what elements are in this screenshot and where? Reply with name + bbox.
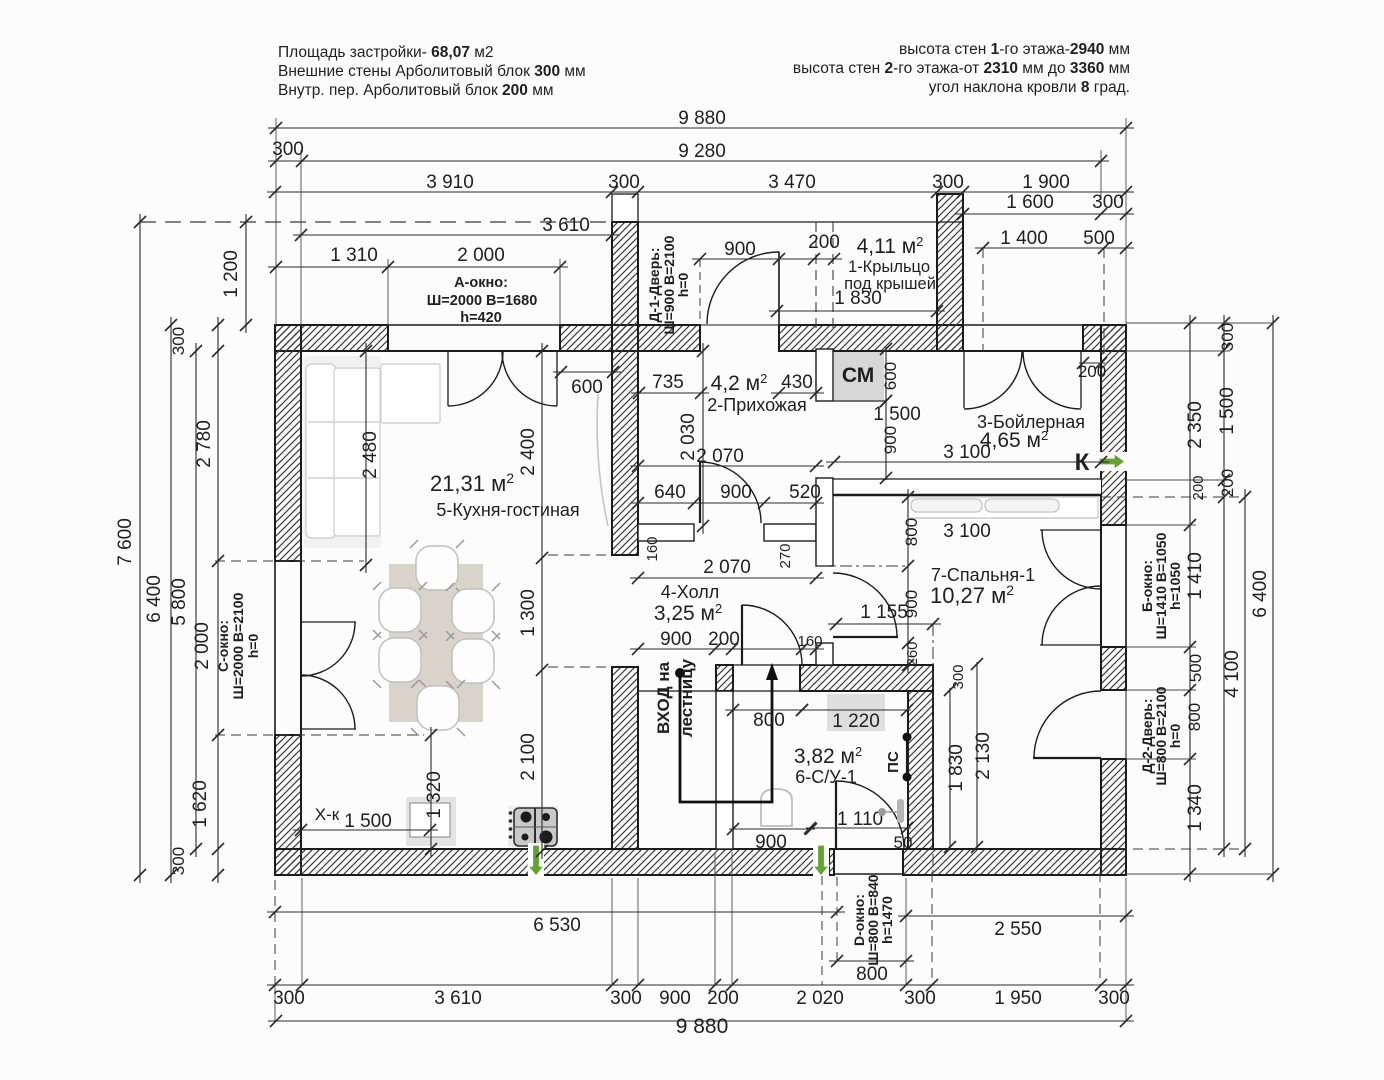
- top wall porch segment: [779, 325, 963, 351]
- svg-text:800: 800: [902, 518, 921, 546]
- bedroom ext dash-dot lines: [817, 565, 908, 567]
- svg-text:800: 800: [856, 964, 888, 985]
- svg-text:1 300: 1 300: [518, 589, 539, 637]
- dim row 3910/300/3470/300/1900: [267, 191, 1134, 193]
- svg-text:300: 300: [169, 327, 188, 355]
- svg-text:2 780: 2 780: [194, 420, 215, 468]
- kitchen opening ext dashes: [548, 554, 612, 556]
- door D-1 entrance leaf and swing: [778, 252, 780, 324]
- porch dashed wall projection: [815, 222, 817, 330]
- dim 900 CM: [885, 399, 887, 480]
- svg-text:Д-1-Дверь:: Д-1-Дверь:: [646, 247, 662, 322]
- svg-text:300: 300: [950, 664, 967, 689]
- svg-text:2 000: 2 000: [457, 245, 505, 266]
- svg-text:500: 500: [1083, 228, 1115, 249]
- svg-text:2 350: 2 350: [1185, 401, 1206, 449]
- svg-text:2 070: 2 070: [703, 557, 751, 578]
- svg-text:1 320: 1 320: [424, 771, 445, 819]
- bathroom east wall W4: [908, 691, 933, 849]
- right margin extension lines: [1126, 322, 1272, 324]
- svg-text:6-С/У-1: 6-С/У-1: [795, 767, 856, 787]
- svg-text:735: 735: [652, 372, 684, 393]
- dim 7600 left: [139, 214, 141, 883]
- svg-text:Х-к: Х-к: [315, 805, 340, 824]
- dim 2070 hall upper: [630, 465, 824, 467]
- svg-text:300: 300: [610, 988, 642, 1009]
- dim 1200 porch height: [245, 214, 247, 333]
- svg-text:h=0: h=0: [675, 273, 691, 298]
- svg-text:900: 900: [720, 482, 752, 503]
- bedroom door leaf and swing: [833, 636, 898, 638]
- hall partition W5 west part: [638, 524, 694, 541]
- window C sill lines: [274, 561, 276, 735]
- svg-text:Площадь застройки- 68,07 м2: Площадь застройки- 68,07 м2: [278, 44, 494, 61]
- svg-text:300: 300: [1092, 192, 1124, 213]
- dim 1600/300: [955, 213, 1134, 215]
- dim 800/900/260 bedroom door: [907, 489, 909, 673]
- boiler/bedroom partition W7: [833, 479, 1101, 496]
- svg-text:6 400: 6 400: [1250, 570, 1271, 618]
- dim 9880 top: [268, 127, 1134, 129]
- door D-2 leaf and swing: [1033, 757, 1101, 759]
- dim 900 bath bottom: [729, 828, 815, 830]
- dashed window ext right top: [982, 248, 984, 351]
- svg-text:160: 160: [797, 633, 822, 650]
- dim 200 boiler window: [1079, 362, 1105, 364]
- dashed roof line left: [140, 221, 612, 223]
- door hall-corridor leaf and swing: [699, 461, 701, 523]
- window C casement (west): [301, 621, 356, 623]
- dim 1830 right of bath: [949, 688, 951, 849]
- svg-text:1 500: 1 500: [1217, 387, 1238, 435]
- svg-text:5 800: 5 800: [169, 578, 190, 626]
- svg-text:3,25 м2: 3,25 м2: [654, 601, 722, 625]
- window B-right casement (bedroom): [1040, 529, 1101, 531]
- svg-text:3 100: 3 100: [943, 442, 991, 463]
- svg-text:300: 300: [932, 172, 964, 193]
- entrance arrow bath (bottom wall): [813, 843, 829, 877]
- svg-text:h=0: h=0: [1167, 724, 1183, 749]
- dim 1220 bath: [798, 709, 911, 711]
- svg-text:1 340: 1 340: [1185, 784, 1206, 832]
- dim 640/900/520: [630, 502, 824, 504]
- svg-text:1 900: 1 900: [1022, 172, 1070, 193]
- svg-text:10,27 м2: 10,27 м2: [930, 582, 1014, 608]
- bottom extension lines: [274, 880, 276, 985]
- dim 900/200/160 corridor south: [630, 648, 824, 650]
- svg-text:900: 900: [660, 629, 692, 650]
- towel rail PS: [906, 737, 908, 777]
- top wall east segment: [1083, 325, 1126, 351]
- svg-text:Внутр. пер. Арболитовый блок 2: Внутр. пер. Арболитовый блок 200 мм: [278, 82, 554, 99]
- svg-text:2 070: 2 070: [696, 446, 744, 467]
- bottom wall west segment: [275, 849, 814, 875]
- dim 5800 left: [195, 343, 197, 857]
- svg-text:высота стен 2-го этажа-от 2310: высота стен 2-го этажа-от 2310 мм до 336…: [793, 60, 1130, 77]
- svg-text:1 500: 1 500: [344, 811, 392, 832]
- svg-text:1 950: 1 950: [994, 988, 1042, 1009]
- dim 2030 hall: [702, 343, 704, 534]
- dim 1500 fridge: [293, 829, 438, 831]
- corridor south line: [716, 664, 802, 666]
- entrance arrow kitchen (bottom wall): [528, 843, 544, 877]
- svg-text:3 610: 3 610: [542, 215, 590, 236]
- dim 600 CM: [885, 347, 887, 403]
- svg-text:200: 200: [1078, 362, 1106, 381]
- svg-text:4-Холл: 4-Холл: [661, 582, 719, 602]
- dim 2480 sofa: [365, 343, 367, 573]
- hall/bedroom wall W6 middle: [816, 478, 833, 566]
- svg-text:ПС: ПС: [885, 751, 902, 773]
- dim 1155: [828, 623, 941, 625]
- svg-text:под крышей: под крышей: [844, 275, 936, 293]
- svg-text:высота стен 1-го этажа-2940 мм: высота стен 1-го этажа-2940 мм: [899, 41, 1130, 58]
- svg-text:200: 200: [708, 629, 740, 650]
- dim 1830 porch: [769, 310, 945, 312]
- stove: [508, 806, 558, 847]
- dim 1310/2000 window A: [268, 266, 568, 268]
- svg-text:900: 900: [755, 832, 787, 853]
- svg-text:300: 300: [904, 988, 936, 1009]
- window D sill lines: [834, 848, 903, 850]
- porch outline top: [612, 221, 963, 223]
- top wall west segment: [275, 325, 388, 351]
- dim 430 hall: [771, 392, 824, 394]
- stair walking line: [675, 668, 685, 678]
- right wall segment 4: [1101, 759, 1126, 875]
- door D-2 threshold: [1125, 690, 1127, 759]
- svg-text:А-окно:: А-окно:: [454, 275, 508, 291]
- bed front line: [908, 517, 1098, 519]
- svg-text:1 600: 1 600: [1006, 192, 1054, 213]
- right wall segment 1: [1101, 325, 1126, 453]
- porch right wall: [937, 194, 963, 351]
- dim 735 hall: [631, 392, 709, 394]
- svg-text:260: 260: [904, 641, 921, 666]
- CM niche shelf line: [833, 400, 886, 402]
- dim 4100 right: [1244, 489, 1246, 857]
- interior wall W1 upper (kitchen/hall): [612, 222, 638, 555]
- svg-text:200: 200: [1218, 469, 1237, 497]
- svg-text:7 600: 7 600: [115, 518, 136, 566]
- stair/bath partition W3: [800, 665, 933, 691]
- svg-text:1 620: 1 620: [190, 780, 211, 828]
- svg-text:200: 200: [1190, 475, 1207, 500]
- hall/boiler wall W6 upper: [816, 349, 833, 401]
- dim 6400 left: [170, 317, 172, 883]
- svg-text:9 880: 9 880: [678, 108, 726, 129]
- svg-text:1 830: 1 830: [946, 744, 967, 792]
- door D-1 threshold: [700, 324, 779, 326]
- svg-text:21,31 м2: 21,31 м2: [430, 470, 514, 496]
- svg-text:6 530: 6 530: [533, 915, 581, 936]
- extension lines top: [275, 118, 277, 325]
- dim 600 wall segment: [553, 371, 621, 373]
- svg-text:h=1050: h=1050: [1167, 562, 1183, 610]
- svg-text:3 100: 3 100: [943, 521, 991, 542]
- svg-text:h=0: h=0: [245, 634, 261, 659]
- dim 6400 right: [1272, 315, 1274, 882]
- K vent arrow (right wall): [1097, 452, 1128, 471]
- svg-text:2 550: 2 550: [994, 919, 1042, 940]
- svg-text:9 280: 9 280: [678, 141, 726, 162]
- dim bottom row: [267, 984, 1134, 986]
- svg-text:2 480: 2 480: [360, 431, 381, 479]
- svg-text:1 500: 1 500: [873, 404, 921, 425]
- dim 800 stairs: [725, 709, 810, 711]
- svg-text:2 130: 2 130: [973, 732, 994, 780]
- svg-text:200: 200: [808, 232, 840, 253]
- svg-text:300: 300: [608, 172, 640, 193]
- svg-text:160: 160: [644, 536, 661, 561]
- hall partition W5 east part: [764, 524, 816, 541]
- svg-text:4,2 м2: 4,2 м2: [711, 371, 768, 395]
- svg-text:1 155: 1 155: [860, 602, 908, 623]
- dim 800 window D: [829, 960, 914, 962]
- dim 1110 bath bottom: [806, 827, 911, 829]
- bathroom lower door leaf and swing: [835, 781, 837, 849]
- svg-text:1 400: 1 400: [1000, 228, 1048, 249]
- svg-text:300: 300: [273, 988, 305, 1009]
- dim 1320 stove: [430, 727, 432, 857]
- dim 2130 right of bath: [976, 662, 978, 849]
- svg-text:4,11 м2: 4,11 м2: [857, 234, 924, 258]
- window B-right sill lines: [1100, 525, 1102, 647]
- window A casement (north, kitchen): [447, 351, 449, 406]
- svg-text:500: 500: [1186, 654, 1205, 682]
- svg-text:640: 640: [654, 482, 686, 503]
- dim 6530 bottom: [267, 911, 845, 913]
- right wall segment 2: [1101, 470, 1126, 525]
- svg-text:2 000: 2 000: [192, 622, 213, 670]
- dim 900/200 porch door: [692, 258, 842, 260]
- chair right 1: [446, 583, 500, 639]
- svg-text:2-Прихожая: 2-Прихожая: [707, 395, 806, 415]
- bathroom sink: [827, 694, 885, 731]
- interior wall W1 lower: [612, 667, 638, 849]
- svg-text:1 310: 1 310: [330, 245, 378, 266]
- svg-text:520: 520: [789, 482, 821, 503]
- svg-text:3 610: 3 610: [434, 988, 482, 1009]
- svg-text:3 910: 3 910: [426, 172, 474, 193]
- dim 2350/1410/500/800/1340 right: [1189, 315, 1191, 882]
- dining table: [389, 564, 483, 722]
- svg-text:430: 430: [781, 372, 813, 393]
- kitchen window ext dashes: [215, 560, 364, 562]
- door corridor-bathroom leaf and swing: [741, 605, 743, 665]
- svg-text:угол наклона кровли 8 град.: угол наклона кровли 8 град.: [929, 79, 1130, 96]
- svg-text:270: 270: [777, 543, 794, 568]
- svg-text:9 880: 9 880: [676, 1015, 729, 1038]
- left wall lower segment: [275, 735, 301, 875]
- svg-text:1 110: 1 110: [837, 809, 883, 830]
- svg-text:300: 300: [1218, 323, 1237, 351]
- svg-text:5-Кухня-гостиная: 5-Кухня-гостиная: [436, 500, 579, 520]
- svg-text:1 220: 1 220: [832, 711, 880, 732]
- svg-text:1 410: 1 410: [1185, 552, 1206, 600]
- svg-text:4 100: 4 100: [1222, 650, 1243, 698]
- fridge: [406, 797, 456, 846]
- svg-text:900: 900: [659, 988, 691, 1009]
- svg-text:200: 200: [707, 988, 739, 1009]
- svg-text:3,82 м2: 3,82 м2: [794, 744, 862, 768]
- top wall center segment: [560, 325, 700, 351]
- svg-text:2 400: 2 400: [518, 428, 539, 476]
- bath door handle: [878, 808, 886, 816]
- left wall upper segment: [275, 325, 301, 561]
- dim 9880 bottom: [268, 1020, 1134, 1022]
- svg-text:600: 600: [571, 377, 603, 398]
- chair left 1: [373, 582, 427, 638]
- svg-text:Внешние стены Арболитовый блок: Внешние стены Арболитовый блок 300 мм: [278, 63, 586, 80]
- stair wall block W2 head: [716, 665, 733, 691]
- chair right 2: [446, 633, 500, 689]
- sofa corner group: [304, 356, 440, 548]
- svg-text:3 470: 3 470: [768, 172, 816, 193]
- svg-text:300: 300: [272, 139, 304, 160]
- window A sill lines: [388, 324, 560, 326]
- dim 2400/1300/2100 kitchen: [541, 343, 543, 859]
- chair top: [410, 540, 464, 596]
- svg-text:1 200: 1 200: [221, 250, 242, 298]
- window B-top sill lines: [963, 324, 1083, 326]
- svg-text:6 400: 6 400: [144, 575, 165, 623]
- chair bottom: [411, 680, 465, 736]
- svg-text:2 100: 2 100: [518, 733, 539, 781]
- dim 1400/500: [975, 247, 1134, 249]
- dim 300/1500/200 right: [1223, 315, 1225, 857]
- vestibule north line: [639, 690, 802, 692]
- svg-text:h=1470: h=1470: [879, 896, 895, 944]
- svg-text:800: 800: [753, 710, 785, 731]
- svg-text:2 020: 2 020: [796, 988, 844, 1009]
- svg-text:300: 300: [169, 847, 188, 875]
- svg-text:300: 300: [1098, 988, 1130, 1009]
- svg-text:600: 600: [881, 362, 900, 390]
- faint kitchen door swing: [597, 394, 608, 526]
- dim 2070 corridor: [630, 577, 824, 579]
- chair left 2: [373, 632, 427, 688]
- svg-text:Ш=2000 В=2100: Ш=2000 В=2100: [230, 592, 246, 699]
- svg-text:лестницу: лестницу: [677, 658, 696, 737]
- svg-text:900: 900: [724, 239, 756, 260]
- svg-text:ВХОД на: ВХОД на: [654, 661, 673, 734]
- stairwell wall W2 lower: [716, 691, 733, 849]
- dim 9280 top: [268, 160, 1109, 162]
- svg-text:800: 800: [1185, 703, 1204, 731]
- svg-text:Ш=2000 В=1680: Ш=2000 В=1680: [427, 293, 538, 309]
- toilet: [761, 789, 792, 826]
- svg-text:1-Крыльцо: 1-Крыльцо: [848, 258, 930, 276]
- dim 2780/2000/1620 left: [217, 317, 219, 883]
- bottom wall sliver at entry arrow: [829, 849, 834, 875]
- svg-text:СМ: СМ: [842, 364, 874, 387]
- bottom dashed ext lines: [931, 872, 933, 985]
- window B-top casement (boiler): [963, 351, 965, 408]
- dim 3100 boiler: [826, 461, 1109, 463]
- bottom wall east segment: [903, 849, 1126, 875]
- svg-text:7-Спальня-1: 7-Спальня-1: [931, 565, 1035, 585]
- svg-text:С-окно:: С-окно:: [215, 620, 231, 672]
- dim 2550 bottom: [898, 915, 1134, 917]
- dim 3610 top: [293, 234, 620, 236]
- svg-text:h=420: h=420: [460, 310, 502, 326]
- washing machine CM: [834, 352, 884, 400]
- svg-text:900: 900: [881, 426, 900, 454]
- bed with pillows: [908, 497, 1098, 518]
- interior wall W1 extension above porch: [612, 194, 638, 222]
- hall/bedroom wall W6 lower: [816, 643, 833, 665]
- svg-text:50: 50: [894, 833, 913, 852]
- right wall segment 3: [1101, 647, 1126, 690]
